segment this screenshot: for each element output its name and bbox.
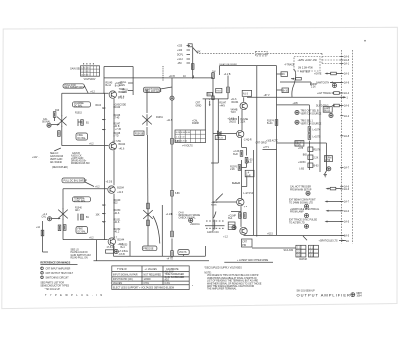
svg-text:SEE PARTS LIST FOR: SEE PARTS LIST FOR [40,282,64,285]
svg-text:NOTE:: NOTE: [204,272,211,274]
note paragraph [204,272,261,290]
svg-text:B+4: B+4 [228,218,233,220]
svg-text:+41.2: +41.2 [114,232,121,234]
svg-text:L-B3: L-B3 [299,169,305,171]
svg-text:CRT OUTPUT HIGH VOLT: CRT OUTPUT HIGH VOLT [46,273,74,275]
title serial no [297,290,316,292]
wire vertical x=205.3 [204,99,206,130]
svg-text:TYPE W: TYPE W [117,268,127,271]
cal input oplus ch2 [42,214,61,221]
svg-text:1M 2.2M 470K: 1M 2.2M 470K [298,68,313,70]
transistor Q1084 [213,198,248,208]
wire vertical x=162.3 [162,205,173,256]
component box RESIS A1-3 [242,90,251,96]
text supply row 1 [298,60,318,62]
svg-text:+6.2: +6.2 [90,92,95,94]
svg-text:+1.2 B: +1.2 B [166,214,173,216]
svg-text:GAIN: GAIN [122,91,128,94]
wire vertical x=171.5 [170,78,174,258]
reference note lines [40,282,69,291]
svg-text:*DECOUPLED SUPPLY VOLTAGES: *DECOUPLED SUPPLY VOLTAGES [204,267,242,270]
svg-text:1/2000: 1/2000 [144,279,152,281]
wire upper plate line y=97.3 [247,95,347,98]
svg-text:8+8+8: 8+8+8 [232,181,240,185]
svg-text:B+R: B+R [233,154,238,156]
svg-text:2736: 2736 [325,160,331,162]
resistor below lower X [147,220,150,226]
text supply row 2 [298,68,313,70]
cal/pulse labels below Q1054 [229,116,248,124]
svg-text:+4KV: +4KV [219,105,225,107]
svg-text:+DEC B: +DEC B [216,138,224,140]
svg-text:CRT: CRT [242,241,247,243]
svg-text:(DECOUPLED): (DECOUPLED) [52,167,68,169]
svg-text:R1015: R1015 [75,113,82,115]
svg-text:+41 B: +41 B [113,126,120,128]
svg-text:DC BAL: DC BAL [78,231,87,234]
wire gain loop top y=66.5 [104,66,133,68]
wire stubs x=98.6 [96,93,106,132]
potentiometer X lower [143,209,153,221]
wire vertical x=326.4 [325,143,327,171]
registration dot [364,40,366,42]
svg-text:4-TRACE: 4-TRACE [285,64,295,67]
signal row ALT TRACE y=93 [317,92,342,95]
svg-text:-0.6 B: -0.6 B [119,254,126,256]
svg-text:CRT GRID: CRT GRID [256,143,267,145]
svg-text:BULB: BULB [324,111,330,113]
label box COARSE DC BAL [73,102,91,108]
svg-text:+675: +675 [298,148,304,150]
wire main vertical x=105.5 [104,93,106,239]
svg-text:ELECT LESS SUPPORT + VOLTAGES: ELECT LESS SUPPORT + VOLTAGES OBTAINED E… [113,287,175,290]
transistor Q1094 [240,227,247,234]
svg-text:DCPL: DCPL [177,55,184,57]
wire vertical x=217.5 [211,99,218,163]
svg-text:+4 TO: +4 TO [167,258,174,260]
component box right x=246-254 [245,170,254,177]
wire ch1 input line y=93 [62,92,109,94]
note arrow FROM CH1 [32,157,40,159]
svg-text:A1035 C04: A1035 C04 [207,231,219,234]
svg-text:NEW DELAY SPACE: NEW DELAY SPACE [179,214,201,217]
resistor on x=171.5 upper [171,138,180,144]
wire branch to clamp boxes [231,211,241,213]
svg-text:SEMICONDUCTOR TYPES: SEMICONDUCTOR TYPES [40,285,69,287]
text dots row [232,181,240,185]
text CRT GRID [256,143,267,145]
wire center Q column x=241.8 [241,97,244,227]
svg-text:6.8K: 6.8K [175,193,180,195]
svg-text:THE AMPLIFIER TERMINAL: THE AMPLIFIER TERMINAL [207,288,237,291]
wire bus risers [97,240,206,261]
wire bus y=78.7 with 10 ohm [104,72,216,79]
text +105 ACTC [266,140,278,143]
wire ch2 lower line y=239.6 [63,237,108,239]
resistor hash above X ch1 [53,112,56,121]
cascode labels ch2 [96,181,121,239]
svg-text:2A: 2A [346,240,349,243]
svg-text:INPUT RATIO (CK): INPUT RATIO (CK) [113,278,133,281]
svg-text:→: → [175,214,177,216]
wire +105 line y=104.9 [277,103,310,105]
svg-text:B1024: B1024 [119,144,126,146]
text R1047 [219,103,226,108]
potentiometer R1030 (X symbol ch2) [58,208,68,220]
svg-text:TERM: TERM [325,157,332,159]
signal row +GATE y=73.5 [314,72,342,75]
note text block GAIN ADJ [54,148,89,165]
component box DELAY LINE [295,141,304,147]
svg-text:+CAL R: +CAL R [229,118,237,121]
svg-text:2A-7: 2A-7 [344,201,350,204]
text L-4/7-P-R [243,193,253,195]
svg-text:2.2K: 2.2K [314,158,319,160]
svg-text:TRIG SEL 1: TRIG SEL 1 [301,120,314,122]
svg-text:TIME INCREASED: TIME INCREASED [165,273,185,276]
signal row EXT TRACE y=221.5 [289,219,342,229]
svg-text:+6.2: +6.2 [95,187,100,189]
svg-text:2A-3: 2A-3 [344,73,350,76]
svg-text:R1061: R1061 [156,117,163,119]
title cross symbol [351,293,355,297]
svg-text:R1040 PULL ON: R1040 PULL ON [71,258,88,260]
signal row SAWTOOTH y=82.5 [316,82,342,88]
svg-text:2A-2: 2A-2 [344,115,350,118]
label box DC SHIFT [76,227,88,234]
svg-text:+4.7: +4.7 [113,237,118,239]
svg-text:DRIVE ADJ B+: DRIVE ADJ B+ [71,160,87,163]
svg-text:R1085: R1085 [211,204,217,206]
svg-text:+41.6: +41.6 [119,149,126,151]
component box TERM [324,156,332,162]
svg-text:10K: 10K [96,215,101,217]
svg-text:2A-6: 2A-6 [344,188,350,191]
svg-text:REF SWEEP MAG: REF SWEEP MAG [65,86,85,89]
signal row DLYD TRIG y=105.5 [316,104,342,107]
svg-text:CALIBRATE: CALIBRATE [166,268,179,271]
svg-text:V494B: V494B [231,110,238,112]
svg-text:0.5%: 0.5% [144,283,149,285]
svg-text:VOLTS/DIV: VOLTS/DIV [84,79,96,81]
resistor on riser [178,250,189,255]
svg-text:0.4%: 0.4% [165,283,170,285]
signal row GRATICULE y=210.8 [290,208,342,218]
ground mark below TERM [324,171,327,177]
trig out text row 2 [295,120,322,125]
svg-text:VERT/CM SOURCE: VERT/CM SOURCE [301,123,322,125]
svg-text:R1088: R1088 [192,123,199,125]
reference item 3 [41,276,69,279]
svg-text:+7.45: +7.45 [115,129,122,131]
svg-text:2A-1: 2A-1 [344,63,350,66]
svg-text:TO ALTER LTD: TO ALTER LTD [289,221,305,224]
resistor hashes below X ch2 [58,225,66,231]
svg-text:MRH: MRH [357,293,363,295]
resistor with left arrow [291,77,301,80]
svg-text:2A-9: 2A-9 [344,82,350,85]
T2 caption [182,146,193,148]
svg-text:SAWTOOTH: SAWTOOTH [316,82,329,85]
component box on x=213 [212,96,214,100]
label box PULL GAIN [143,87,172,93]
svg-text:R1064: R1064 [232,102,239,104]
svg-text:1064: 1064 [357,296,363,298]
resistor R1040 cluster [75,208,90,221]
label box ELECT FOCUS [146,90,148,93]
svg-text:R1061B: R1061B [135,133,144,135]
component box VRT34 [228,216,236,221]
transistor Q1054 [231,99,248,110]
wire vertical x=214.3 [212,78,214,231]
label box PRECISE [142,246,157,251]
wire faint vertical x=163 [162,66,164,81]
label box PULL DC BAL [62,178,94,187]
dashed label box POWER SUPPLY [256,51,268,56]
svg-text:VOLTS: VOLTS [179,252,187,254]
T1 caption +4 VOLTS/DIV [84,79,96,81]
connector pin ticks [340,57,346,241]
wire ch1 lower line y=145.6 [62,143,109,145]
svg-text:+11.6: +11.6 [231,99,237,101]
svg-text:+GATE: +GATE [314,73,322,76]
svg-text:DC BAL: DC BAL [78,137,87,140]
text B+1.2 [118,98,125,100]
svg-text:+GRATICULE ELECTRICAL: +GRATICULE ELECTRICAL [290,208,320,211]
svg-text:CRT INPUT AMPLIFIER: CRT INPUT AMPLIFIER [46,267,71,270]
wire bottom bus y=258 [94,256,210,261]
svg-text:+97 V: +97 V [264,95,271,97]
svg-text:B+4: B+4 [121,247,126,249]
svg-text:EXT TRACE SYNC PULSE: EXT TRACE SYNC PULSE [289,219,317,222]
under Q4 cluster [106,244,129,256]
svg-text:A1-3: A1-3 [243,93,249,96]
svg-text:GAIN: GAIN [119,84,125,87]
text 4-TRACE [285,64,295,67]
svg-text:+225V +100V -150: +225V +100V -150 [298,60,318,62]
svg-text:.1 .2 .5 1 2: .1 .2 .5 1 2 [81,71,90,73]
delay line resistor stack [298,143,321,171]
svg-text:+0.2 B: +0.2 B [106,181,113,183]
svg-text:2A-5: 2A-5 [344,235,350,238]
wire branch up right [242,177,247,187]
oplus below TERM [327,167,331,171]
svg-text:ALL B.W: ALL B.W [165,271,175,274]
cal input oplus ch1 [42,118,60,128]
resistor TRIG PICKOFF [216,87,230,93]
wire vertical through X pots [147,135,150,246]
svg-text:2.2K: 2.2K [241,122,246,124]
wire lower plate line y=235.4 [244,233,345,235]
svg-text:DELAY LINE DRIVER: DELAY LINE DRIVER [219,63,237,66]
svg-text:PULL DC BAL SWEEP: PULL DC BAL SWEEP [64,180,88,183]
note text block FROM CH2 [71,250,91,260]
wire vertical x=63 ch2 [62,189,64,240]
svg-text:L+1074: L+1074 [313,130,321,132]
resistor above lower X [147,203,150,209]
svg-text:DELAY: DELAY [296,141,304,144]
svg-text:+6.2: +6.2 [89,237,94,239]
svg-text:+ LATEST AND OTHER WIRE: + LATEST AND OTHER WIRE [237,259,269,262]
svg-text:+225: +225 [177,46,183,48]
diode on Q1064 lead [218,131,222,136]
svg-text:CA: CA [208,93,212,96]
svg-text:2A-8: 2A-8 [344,135,350,138]
svg-text:+1.2: +1.2 [43,214,48,216]
svg-text:+4.7 2W: +4.7 2W [112,141,121,143]
svg-text:R1076: R1076 [314,150,321,152]
svg-text:-2.4Q-R: -2.4Q-R [243,139,252,141]
label box THERMAL BAL [73,197,91,203]
svg-text:+6.2: +6.2 [89,143,94,145]
svg-text:L-TD: L-TD [113,136,118,138]
svg-text:B-93: B-93 [314,166,320,168]
svg-text:2.2K: 2.2K [230,169,235,171]
component box RC FILTER [277,72,288,77]
svg-text:SEE LO: SEE LO [71,250,80,252]
wire vertical x=227.9 [224,74,231,99]
signal row CAL HOT TRIGGER y=188.6 [290,186,342,196]
svg-text:17.8 A: 17.8 A [107,246,114,249]
svg-text:+10 B: +10 B [169,76,176,78]
svg-text:CAL HOT TRIGGER: CAL HOT TRIGGER [290,186,311,189]
svg-text:SCA./CM: SCA./CM [284,249,294,252]
svg-text:B65: B65 [303,154,308,156]
svg-text:+4.2 B: +4.2 B [224,74,231,76]
svg-text:VARIATIONS AVAILABLE AT FINAL: VARIATIONS AVAILABLE AT FINAL CHARTS IN [207,277,257,280]
wire grid line y=149.4 [263,147,277,149]
transistor Q1024 [109,143,126,151]
svg-text:SWITCHING CIRCUIT: SWITCHING CIRCUIT [46,277,70,279]
svg-text:SEE LO: SEE LO [50,153,59,155]
transistor Q1014 [109,91,126,99]
signal row GRATICULE LTS y=240.5 [303,236,345,243]
gain switch labels [119,82,133,94]
text +0.4 B+ [227,119,236,121]
svg-text:PRECISE: PRECISE [143,249,154,251]
wire vertical x=61.8 ch1 [55,93,62,145]
curly brace leader [292,69,296,97]
potentiometer X upper (focus) [142,114,163,126]
svg-text:+11.5: +11.5 [167,120,173,122]
svg-text:* SN 101 & UP: * SN 101 & UP [45,289,61,291]
svg-text:2736: 2736 [296,145,302,147]
svg-text:+12.2: +12.2 [177,59,184,61]
svg-text:+105 ACTC: +105 ACTC [266,140,278,143]
wire vertical x=104 upper [103,67,105,94]
wire vertical x=133.1 [132,67,134,96]
svg-text:ADJ: ADJ [165,278,169,281]
component box CASE [207,92,212,96]
title OUTPUT AMPLIFIER [297,293,351,298]
resistor hash below X ch1 [58,131,61,137]
svg-text:FROM LAMP: FROM LAMP [290,211,304,214]
reference item 2 [41,272,74,275]
cascode labels ch1 [106,82,127,143]
resistor on x=171.5 bottom [171,231,174,256]
reference item 1 [41,267,71,270]
wire ch2 input line y=188.8 [63,187,107,189]
svg-text:PWR SUP: PWR SUP [256,54,267,56]
svg-text:CHECK ON BAL: CHECK ON BAL [179,217,197,220]
svg-text:AND THE SIGNAL REMOVAL CAUTION: AND THE SIGNAL REMOVAL CAUTION FOR [207,285,254,288]
svg-text:+CAL: +CAL [192,120,199,123]
T1 label GAIN SEL [70,68,81,71]
text +CAL box [192,120,199,126]
svg-text:2.2K: 2.2K [311,86,316,88]
dashed power lead to connector [267,53,340,63]
svg-text:NOT REQUIRED: NOT REQUIRED [144,275,162,277]
svg-text:TRIG: TRIG [216,91,221,93]
wire vertical x=320 [319,100,321,172]
svg-text:2A-5: 2A-5 [344,221,350,224]
svg-text:.1 .2 .5 1 2 5: .1 .2 .5 1 2 5 [176,136,186,138]
component box below upper X [134,131,144,135]
scale table SCA/CM [284,245,319,261]
component box CRT PIN [223,236,296,248]
component box GRAT LT [323,107,332,113]
svg-text:2A-4: 2A-4 [344,92,350,95]
svg-text:EXT BEAM CONN POINT: EXT BEAM CONN POINT [289,199,316,202]
trig out text row 1 [295,110,322,115]
wire +11.5 label [167,120,173,122]
svg-text:+7.2 BAL: +7.2 BAL [119,250,129,253]
svg-text:+ALT TRACE: +ALT TRACE [317,92,331,95]
component box R1 B+10 [277,88,289,93]
value table T2 [175,130,206,143]
note underline latest wire [224,259,273,262]
resistor R1076 left [230,165,246,171]
svg-text:VOLTAGES IN THIS CKTS MAY BE A: VOLTAGES IN THIS CKTS MAY BE A DC CONTR [207,274,259,277]
svg-text:B+10: B+10 [283,90,289,92]
svg-text:ADJ R1040: ADJ R1040 [50,161,62,164]
svg-text:17-45: 17-45 [113,118,120,120]
svg-text:L-33: L-33 [248,160,253,162]
svg-text:+34 BC: +34 BC [298,162,306,164]
label box PULL REF SWEEP [63,84,88,94]
svg-text:B+44: B+44 [267,123,273,125]
svg-text:+MACCA: +MACCA [190,223,200,226]
svg-text:L+1075: L+1075 [313,137,321,139]
svg-text:ADJ: ADJ [75,209,79,212]
gain selector table T1 [81,63,100,77]
wire stubs ch2 [102,205,106,224]
svg-text:R1076: R1076 [230,166,237,168]
text A-B TEST [300,70,311,73]
component boxes CLAMP pair [228,222,235,230]
wire vertical x=253.5 [253,150,255,235]
svg-text:B+14: B+14 [106,85,112,87]
note text block left ch2 [50,153,68,169]
svg-text:L-4/7-P-R: L-4/7-P-R [243,193,253,195]
decoupled supply note [204,267,242,270]
svg-text:+CRT GAIN: +CRT GAIN [71,157,84,160]
svg-text:R1040: R1040 [113,107,120,109]
svg-text:+12V→: +12V→ [32,157,40,159]
svg-text:A-B TEST: A-B TEST [300,70,311,73]
svg-text:OUTPUT AMPLIFIER: OUTPUT AMPLIFIER [297,293,351,298]
type plug-in caption [45,294,104,297]
svg-text:-150: -150 [177,63,182,65]
wire vertical x=147 upper X [146,90,148,135]
svg-text:2A-7: 2A-7 [344,167,350,170]
wire supply vertical x=192.7 [192,47,194,79]
wire main vertical x=114 [113,99,115,252]
curved leader to PRECISE [153,216,160,244]
svg-text:*: * [192,285,193,288]
svg-text:2N202: 2N202 [229,122,236,124]
svg-text:MORE R1016 SM: MORE R1016 SM [71,163,89,165]
